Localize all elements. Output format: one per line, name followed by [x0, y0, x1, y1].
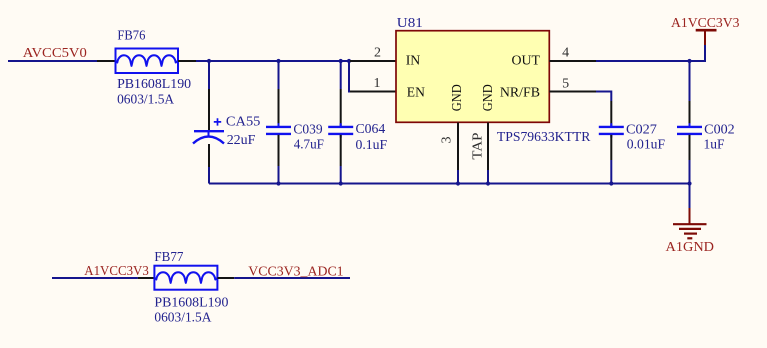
svg-text:1: 1	[374, 76, 381, 91]
svg-text:4: 4	[562, 46, 569, 61]
svg-text:AVCC5V0: AVCC5V0	[23, 46, 87, 61]
wire C002 top	[689, 61, 691, 101]
svg-text:C039: C039	[293, 123, 322, 138]
wire C039 bottom	[278, 166, 280, 184]
svg-text:0.01uF: 0.01uF	[627, 138, 665, 153]
junction node rail ground	[687, 181, 691, 185]
wire TAP to rail	[487, 170, 489, 184]
svg-text:0.1uF: 0.1uF	[356, 138, 388, 153]
pin stub C002 top	[689, 101, 691, 126]
svg-text:FB76: FB76	[117, 29, 145, 44]
svg-text:TAP: TAP	[471, 132, 486, 159]
svg-text:5: 5	[562, 77, 569, 92]
pin stub U81 TAP	[487, 123, 489, 171]
capacitor C064	[328, 123, 353, 137]
svg-text:0603/1.5A: 0603/1.5A	[154, 311, 212, 326]
junction node rail C039	[276, 181, 280, 185]
wire ground rail bottom	[209, 183, 690, 185]
capacitor CA55 polarized	[193, 118, 224, 143]
wire bottom right	[234, 277, 350, 279]
capacitor C027	[599, 123, 624, 137]
wire C002 bottom to ground	[689, 160, 691, 208]
svg-text:A1VCC3V3: A1VCC3V3	[671, 16, 740, 31]
wire C027 bottom	[610, 160, 612, 184]
pin stub C039 bottom	[278, 135, 280, 166]
ground A1GND	[673, 208, 707, 238]
svg-text:GND: GND	[450, 84, 465, 111]
capacitor C002	[677, 123, 702, 137]
junction node EN branch	[347, 59, 351, 63]
power port A1VCC3V3	[696, 30, 717, 45]
junction node C064 top	[339, 59, 343, 63]
svg-text:FB77: FB77	[154, 250, 183, 265]
svg-text:1uF: 1uF	[704, 138, 725, 153]
junction node C039 top	[276, 59, 280, 63]
svg-text:TPS79633KTTR: TPS79633KTTR	[497, 130, 591, 145]
wire pin3 to rail	[457, 170, 459, 184]
pin stub U81 pin2 IN	[350, 60, 396, 62]
svg-text:NR/FB: NR/FB	[500, 86, 540, 101]
pin stub U81 pin4 OUT	[549, 60, 596, 62]
pin stub FB76 pin1	[97, 60, 116, 62]
wire NR/FB to C027	[596, 92, 611, 102]
ferrite bead FB77	[154, 266, 217, 290]
pin stub FB77 pin2	[217, 277, 234, 279]
junction node rail C027	[609, 181, 613, 185]
pin stub CA55 top	[208, 89, 210, 130]
svg-text:IN: IN	[406, 54, 421, 69]
junction node C002 top	[687, 59, 691, 63]
svg-text:A1VCC3V3: A1VCC3V3	[84, 264, 149, 279]
junction node CA55 top	[207, 59, 211, 63]
wire C064 bottom	[340, 166, 342, 184]
pin stub C039 top	[278, 89, 280, 126]
pin stub C027 top	[610, 101, 612, 126]
wire C039 top	[278, 61, 280, 89]
wire input left	[8, 60, 97, 62]
wire C064 top	[340, 61, 342, 89]
svg-text:VCC3V3_ADC1: VCC3V3_ADC1	[248, 265, 343, 280]
pin stub FB77 pin1	[138, 277, 155, 279]
svg-text:OUT: OUT	[512, 54, 541, 69]
capacitor C039	[266, 123, 291, 137]
svg-text:PB1608L190: PB1608L190	[154, 296, 228, 311]
svg-text:4.7uF: 4.7uF	[294, 138, 324, 153]
wire OUT to power	[596, 45, 705, 61]
junction node rail pin3	[456, 181, 460, 185]
pin stub C064 top	[340, 89, 342, 126]
pin stub C027 bottom	[610, 135, 612, 160]
wire main rail top	[196, 60, 350, 62]
svg-text:22uF: 22uF	[227, 133, 256, 148]
svg-text:EN: EN	[407, 86, 425, 101]
svg-text:CA55: CA55	[226, 115, 261, 130]
ferrite bead FB76	[116, 49, 179, 74]
junction node rail C064	[339, 181, 343, 185]
pin stub C064 bottom	[340, 135, 342, 166]
pin stub U81 pin3 GND	[457, 123, 459, 171]
svg-text:PB1608L190: PB1608L190	[117, 77, 191, 92]
svg-text:2: 2	[374, 46, 381, 61]
svg-text:3: 3	[440, 137, 455, 144]
pin stub C002 bottom	[689, 135, 691, 160]
pin stub FB76 pin2	[178, 60, 196, 62]
svg-text:C027: C027	[626, 123, 657, 138]
wire CA55 bottom to rail	[208, 167, 210, 184]
svg-text:0603/1.5A: 0603/1.5A	[117, 92, 175, 107]
svg-text:GND: GND	[481, 84, 496, 111]
svg-text:A1GND: A1GND	[666, 240, 715, 255]
svg-text:U81: U81	[397, 16, 423, 31]
svg-text:C002: C002	[704, 123, 735, 138]
wire EN branch	[349, 61, 350, 92]
pin stub CA55 bottom	[208, 144, 210, 167]
pin stub U81 pin5 NR/FB	[549, 91, 596, 93]
wire CA55 top	[208, 61, 210, 89]
junction node rail TAP	[486, 181, 490, 185]
wire bottom left	[52, 277, 138, 279]
svg-text:C064: C064	[356, 122, 386, 137]
pin stub U81 pin1 EN	[350, 91, 396, 93]
regulator U81 body	[396, 31, 549, 123]
